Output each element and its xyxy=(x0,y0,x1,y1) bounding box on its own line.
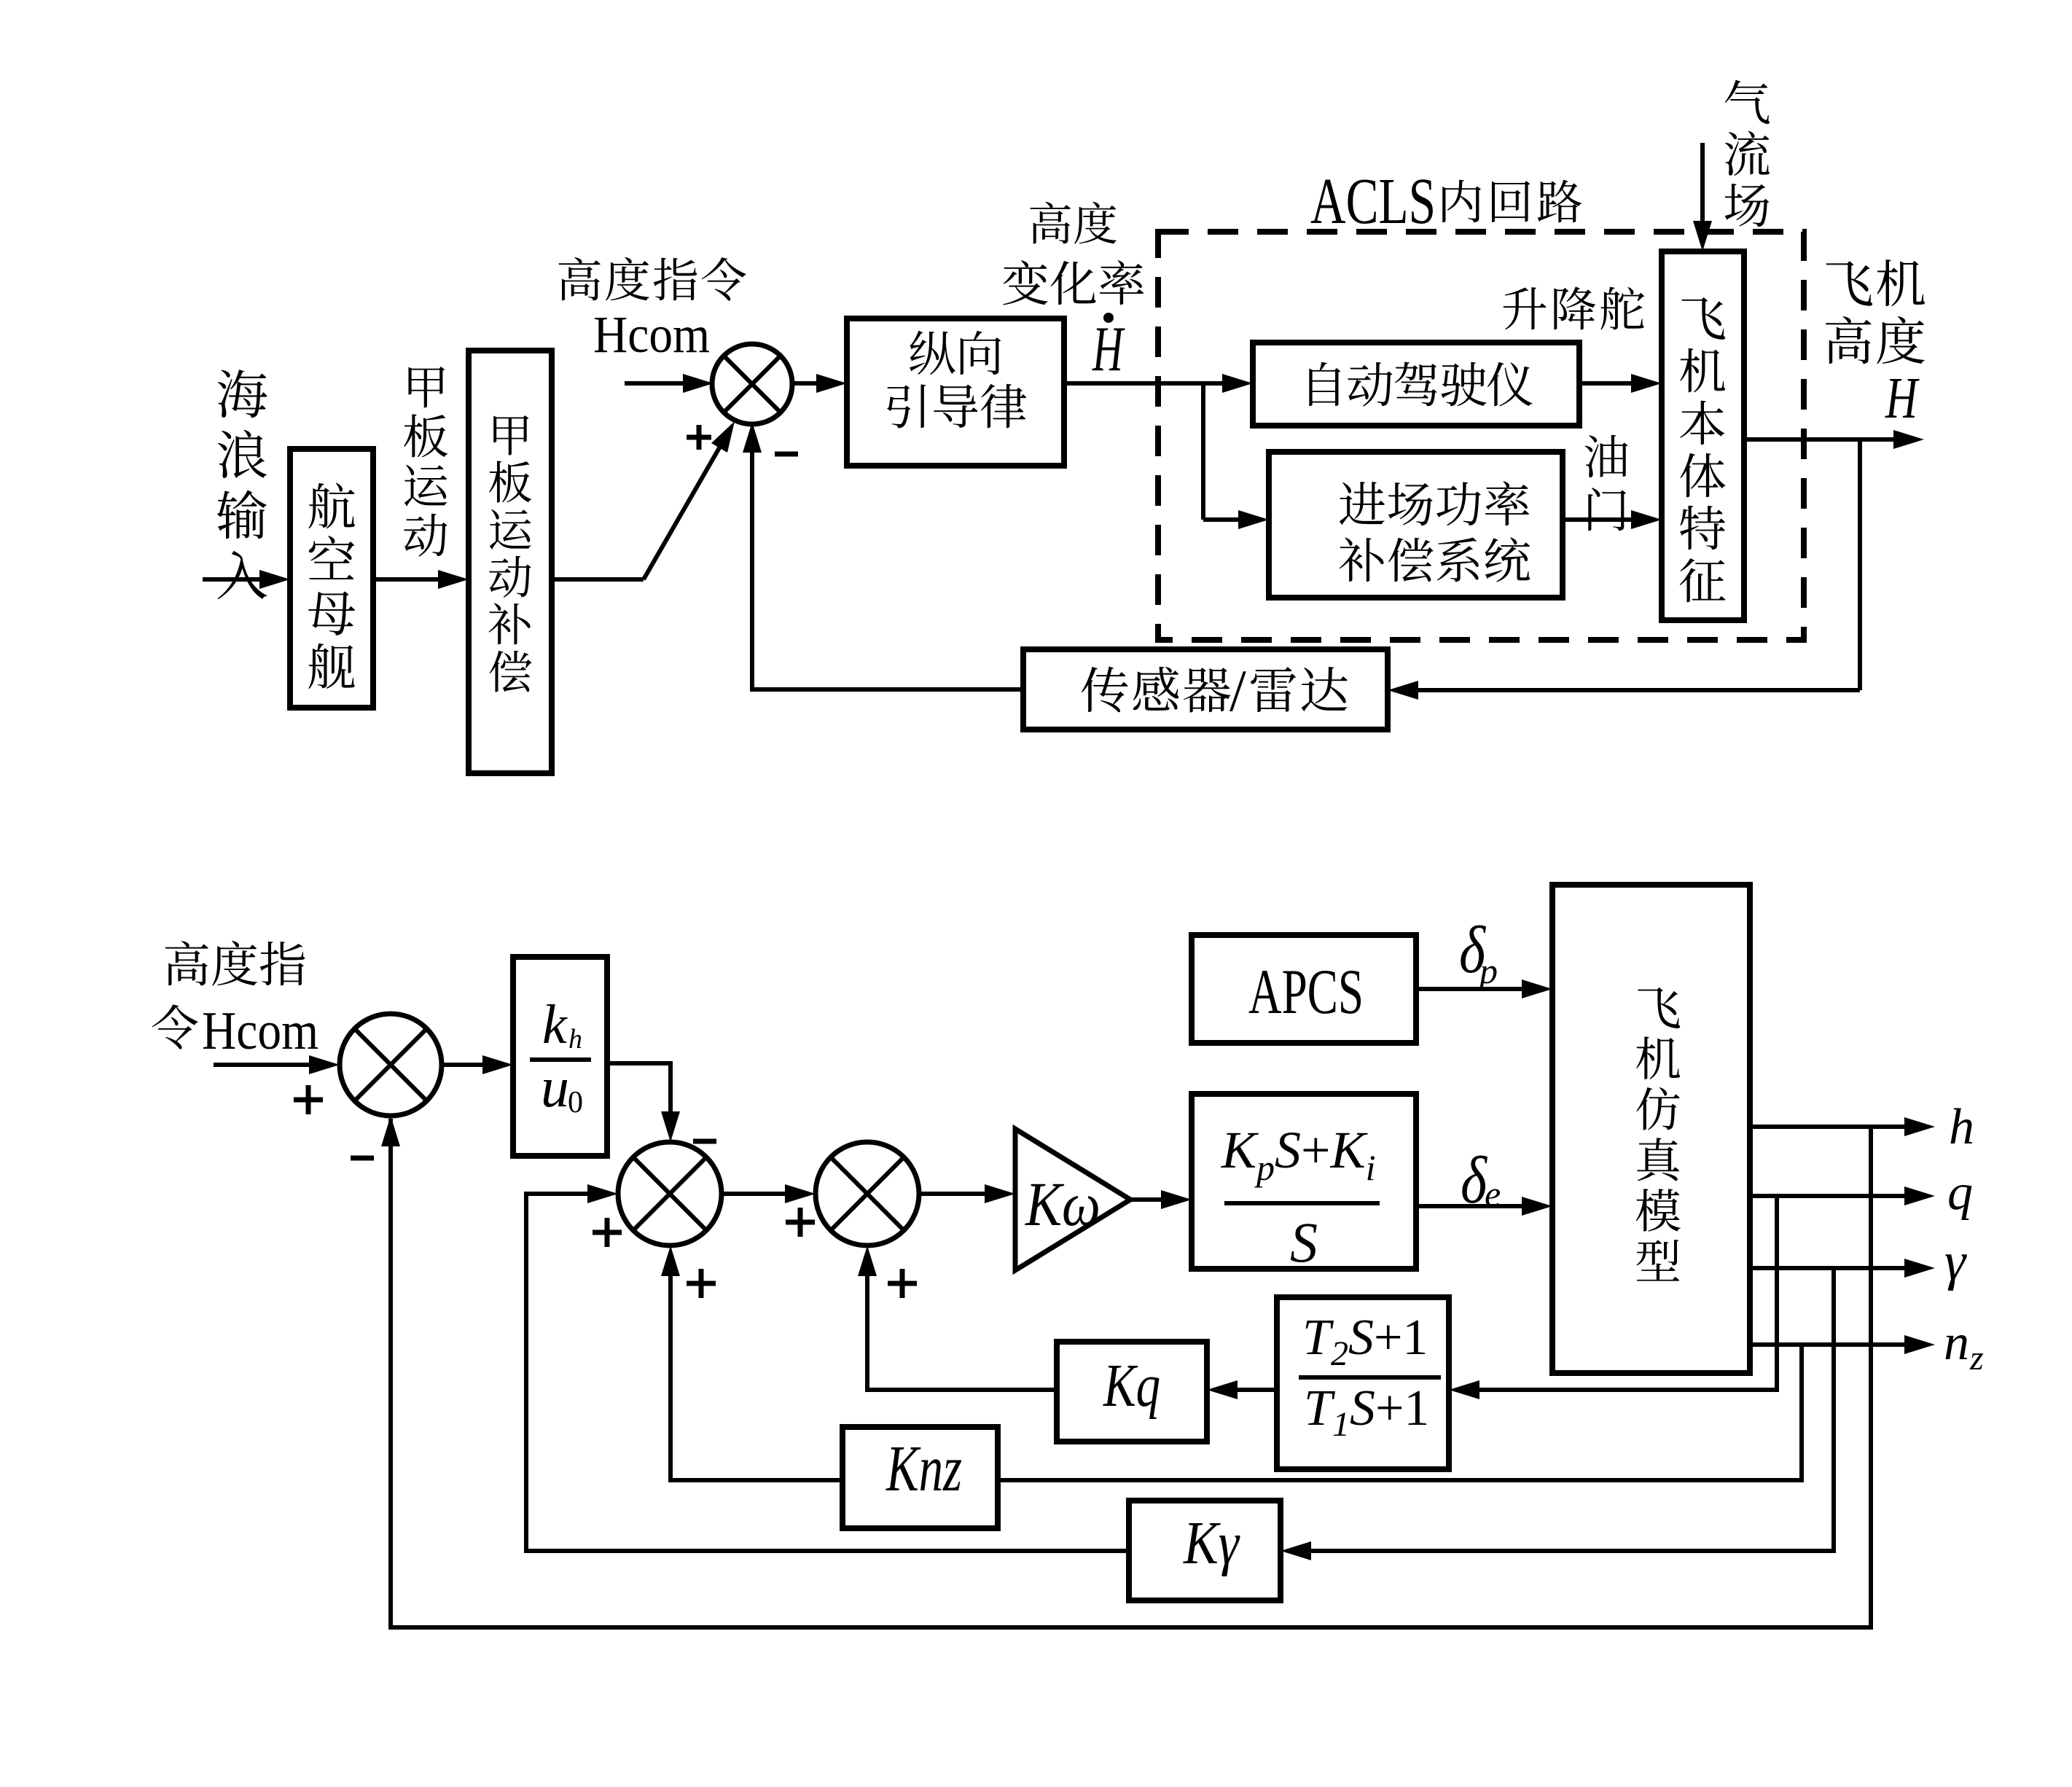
svg-text:q: q xyxy=(1947,1165,1973,1221)
svg-text:n: n xyxy=(1944,1315,1969,1371)
svg-text:0: 0 xyxy=(568,1086,583,1119)
svg-text:Hcom: Hcom xyxy=(593,305,710,364)
svg-text:γ: γ xyxy=(1944,1232,1967,1291)
svg-text:p: p xyxy=(1477,950,1498,991)
svg-text:z: z xyxy=(1969,1339,1984,1377)
svg-text:T1S+1: T1S+1 xyxy=(1304,1380,1429,1444)
svg-text:/: / xyxy=(1229,657,1246,724)
svg-text:S: S xyxy=(1290,1211,1318,1274)
svg-text:Kq: Kq xyxy=(1103,1352,1160,1420)
svg-text:T2S+1: T2S+1 xyxy=(1302,1310,1428,1373)
svg-text:APCS: APCS xyxy=(1248,957,1364,1028)
svg-text:u: u xyxy=(541,1055,569,1119)
svg-text:δ: δ xyxy=(1461,1143,1487,1217)
svg-text:Hcom: Hcom xyxy=(202,1001,318,1061)
svg-text:KpS+Ki: KpS+Ki xyxy=(1221,1121,1376,1188)
svg-text:H: H xyxy=(1885,367,1920,431)
svg-text:H: H xyxy=(1092,314,1125,385)
svg-text:e: e xyxy=(1485,1173,1501,1214)
svg-text:k: k xyxy=(542,994,568,1055)
svg-text:Kγ: Kγ xyxy=(1183,1509,1240,1577)
svg-text:Kω: Kω xyxy=(1024,1169,1100,1239)
svg-text:Knz: Knz xyxy=(886,1433,962,1505)
svg-text:ACLS: ACLS xyxy=(1310,165,1436,238)
svg-text:h: h xyxy=(568,1024,582,1055)
svg-text:h: h xyxy=(1949,1099,1974,1155)
